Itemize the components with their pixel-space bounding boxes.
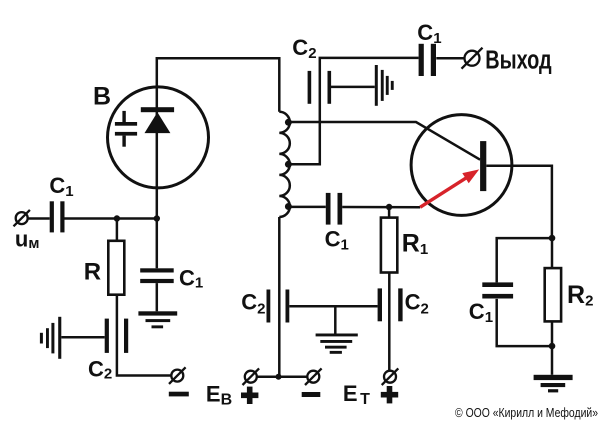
svg-text:© ООО «Кирилл и Мефодий»: © ООО «Кирилл и Мефодий» [455, 405, 598, 420]
svg-text:Выход: Выход [485, 47, 552, 75]
svg-text:В: В [93, 83, 111, 111]
svg-text:R: R [84, 259, 101, 286]
